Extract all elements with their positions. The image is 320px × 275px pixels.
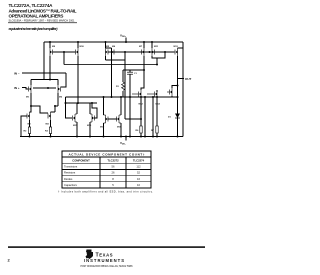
- junction (29.5,136.5): [29, 136, 31, 138]
- resistor R3 (under M4): [49, 127, 51, 134]
- junction (77,136.5): [76, 136, 78, 138]
- wire M3 source: [29, 120, 31, 127]
- wire left drop: [43, 42, 45, 80]
- svg-text:26: 26: [112, 171, 115, 175]
- transistor M11: [117, 115, 122, 123]
- diode D1: [175, 114, 180, 119]
- wire M2 drain: [57, 93, 59, 106]
- right edge wire: [182, 42, 184, 137]
- svg-text:56: 56: [112, 165, 115, 169]
- wire M12 res to rail: [156, 133, 158, 137]
- bias line H3: [64, 64, 157, 66]
- junction (92,103): [91, 102, 93, 104]
- gate bus y52 pair1: [53, 51, 76, 53]
- wire M12 source: [156, 98, 158, 126]
- svg-text:OPERATIONAL AMPLIFIERS: OPERATIONAL AMPLIFIERS: [9, 14, 64, 19]
- wire body link: [33, 87, 56, 89]
- junction (64,52): [63, 51, 65, 53]
- junction (121,97): [120, 96, 122, 98]
- wire M12 drain: [156, 90, 158, 92]
- wire pair3 tap: [157, 52, 165, 58]
- table outer border: [62, 151, 151, 188]
- junction (177.5,85.5): [177, 85, 179, 87]
- wire M3 res to rail: [29, 134, 31, 137]
- svg-text:Resistors: Resistors: [64, 171, 76, 175]
- bus line H7: [66, 96, 178, 98]
- junction (130,97): [129, 96, 131, 98]
- wire M5 gate link / bus corner: [66, 97, 73, 118]
- wire M8 res to rail: [140, 133, 142, 137]
- junction (78,42): [77, 41, 79, 43]
- wire M10 source: [103, 123, 105, 137]
- junction (126,42): [125, 41, 127, 43]
- gate bus y52 right: [108, 51, 175, 53]
- junction (157,136.5): [156, 136, 158, 138]
- wire M5 drain: [76, 103, 78, 114]
- wire M11 gate link: [108, 118, 118, 120]
- wire Q2 drain to mid bus: [77, 56, 79, 103]
- wire Q5 source: [151, 42, 153, 48]
- junction (141,119): [140, 118, 142, 120]
- TI logo map symbol: [86, 250, 94, 260]
- component designator labels: [24, 46, 179, 133]
- junction (177.5,136.5): [177, 136, 179, 138]
- svg-text:52: 52: [137, 171, 140, 175]
- svg-text:COMPONENT: COMPONENT: [72, 158, 90, 162]
- resistor R1: [122, 82, 125, 90]
- VDD- terminal tick: [125, 137, 127, 141]
- wire IN+: [22, 88, 29, 90]
- junction (50.5,136.5): [50, 136, 52, 138]
- transistor M3 (mirror left): [27, 112, 30, 120]
- wire M6 gate loop: [92, 103, 97, 118]
- wire mirror Z link: [31, 106, 48, 113]
- wire M4 drain stub: [51, 111, 56, 113]
- junction (111.5,97): [111, 96, 113, 98]
- resistor R2 (under M3): [28, 127, 30, 134]
- resistor R4 (under M8): [140, 126, 142, 133]
- junction dots: [29, 41, 179, 138]
- transistor M1 (input left): [29, 85, 32, 93]
- junction (65.5,103): [65, 102, 67, 104]
- wire M3 drain stub: [30, 106, 32, 112]
- svg-text:INSTRUMENTS: INSTRUMENTS: [84, 258, 124, 263]
- transistor Q4 (top pair2 right): [142, 48, 145, 56]
- transistor Q6 (top pair3 right): [175, 48, 178, 56]
- wire IN- wrap: [61, 73, 66, 87]
- junction (125,52): [124, 51, 126, 53]
- junction (177.5,97): [177, 96, 179, 98]
- wire Q4 drain: [141, 56, 144, 90]
- svg-text:TLC2272: TLC2272: [107, 158, 119, 162]
- transistor M10: [104, 115, 109, 123]
- resistor R5 (under M12): [156, 126, 158, 133]
- wire Q1 drain to tail: [49, 56, 51, 80]
- junction (153,97): [152, 96, 154, 98]
- wire M2 drain jog: [55, 106, 58, 112]
- transistor M12: [147, 90, 157, 98]
- transistor M5 (mid left): [73, 114, 78, 122]
- junction (55,106): [54, 105, 56, 107]
- wire C1 top lead: [129, 70, 131, 72]
- svg-text:ACTUAL DEVICE COMPONENT COUNT†: ACTUAL DEVICE COMPONENT COUNT†: [69, 153, 145, 157]
- wire Q1 source: [49, 42, 51, 48]
- wire M3 gate to rail: [21, 116, 27, 137]
- junction (145,97): [144, 96, 146, 98]
- svg-text:† Includes both amplifiers and: † Includes both amplifiers and all ESD, …: [58, 191, 153, 194]
- junction (152,42): [151, 41, 153, 43]
- transistor Q5 (top pair3 left): [152, 48, 155, 56]
- wire M11 source: [120, 123, 122, 137]
- wire tail bar: [31, 79, 58, 81]
- wire x153 drop: [152, 97, 154, 137]
- wire Q3 source: [105, 42, 107, 48]
- junction (141,136.5): [140, 136, 142, 138]
- svg-text:112: 112: [136, 165, 141, 169]
- junction (31,106): [30, 105, 32, 107]
- svg-text:SLOS190A – FEBRUARY 1997 – REV: SLOS190A – FEBRUARY 1997 – REVISED MARCH…: [9, 19, 76, 23]
- svg-text:Capacitors: Capacitors: [64, 183, 78, 187]
- wire M6 drain: [89, 103, 91, 114]
- svg-text:16: 16: [137, 177, 140, 181]
- junction (48,88): [47, 87, 49, 89]
- wire M4 res to rail: [50, 134, 52, 137]
- wire M14 drain: [172, 86, 178, 89]
- wire x145 drop: [144, 97, 146, 137]
- junction (153,136.5): [152, 136, 154, 138]
- svg-text:10: 10: [137, 183, 140, 187]
- junction (145,136.5): [144, 136, 146, 138]
- header rule: [8, 21, 77, 24]
- transistor M4 (mirror right): [48, 112, 51, 120]
- wire M14 source: [171, 96, 173, 97]
- wire Q4 source: [143, 42, 145, 48]
- svg-text:POST OFFICE BOX 655303 • DALLA: POST OFFICE BOX 655303 • DALLAS, TEXAS 7…: [81, 265, 134, 268]
- wire pair2 tap: [124, 52, 126, 119]
- junction (103.5,97): [103, 96, 105, 98]
- junction (141,97): [140, 96, 142, 98]
- transistor M2 (input right): [58, 85, 61, 93]
- transistor M8 (second stage): [132, 90, 141, 98]
- wire Q3b down to bus: [111, 48, 113, 97]
- junction (157,64.5): [156, 64, 158, 66]
- capacitor C1: [127, 72, 133, 74]
- svg-text:Transistors: Transistors: [64, 165, 78, 169]
- junction (50,79.5): [49, 79, 51, 81]
- wire M1 drain: [30, 93, 32, 106]
- transistor Q3a (top): [106, 48, 109, 56]
- svg-text:TLC2272A, TLC2274A: TLC2272A, TLC2274A: [9, 3, 54, 8]
- svg-text:Advanced LinCMOS™ RAIL-TO-RAIL: Advanced LinCMOS™ RAIL-TO-RAIL: [9, 8, 77, 13]
- transistor M6 (mid right): [90, 114, 95, 122]
- wire M11 drain: [120, 97, 122, 115]
- junction (165,52): [164, 51, 166, 53]
- wire comp top: [123, 69, 144, 71]
- wire M2 source: [57, 80, 59, 86]
- svg-text:IN +: IN +: [14, 86, 20, 90]
- VSS rail: [20, 136, 183, 138]
- transistor glyphs: [27, 48, 178, 123]
- svg-text:IN –: IN –: [14, 71, 20, 75]
- wire M6 source: [89, 122, 91, 137]
- junction (144,70): [143, 69, 145, 71]
- wire R1 bottom lead: [122, 91, 124, 97]
- transistor Q1 (top pair1 left): [50, 48, 53, 56]
- junction (144,42): [143, 41, 145, 43]
- junction (149.5,52): [149, 51, 151, 53]
- junction (157,97): [156, 96, 158, 98]
- transistor Q2 (top pair1 right): [76, 48, 79, 56]
- wire Q3a-Q3b source link: [106, 47, 112, 49]
- wire Q6 drain / output node: [177, 56, 179, 137]
- wire M5 source: [76, 122, 78, 137]
- VDD+ terminal tick: [125, 38, 127, 43]
- junction (126,136.5): [125, 136, 127, 138]
- wire pair1 tap: [63, 52, 65, 65]
- wire M1 source: [30, 80, 32, 86]
- junction (50,42): [49, 41, 51, 43]
- junction (130,136.5): [129, 136, 131, 138]
- table body: [64, 165, 78, 188]
- junction (103.5,136.5): [103, 136, 105, 138]
- wire Q6 source: [178, 47, 184, 49]
- junction (105.5,42): [105, 41, 107, 43]
- wire mid bus: [66, 102, 98, 104]
- svg-text:Diodes: Diodes: [64, 177, 73, 181]
- svg-text:TLC2274: TLC2274: [133, 158, 145, 162]
- junction (78,103): [77, 102, 79, 104]
- wire M4 source: [50, 120, 52, 127]
- wire gate line y119: [125, 118, 141, 120]
- wire C1 bottom lead: [129, 75, 131, 137]
- wire M10 drain: [103, 97, 105, 115]
- wire IN-: [22, 72, 66, 74]
- junction (90,136.5): [89, 136, 91, 138]
- svg-text:equivalent schematic (each amp: equivalent schematic (each amplifier): [9, 27, 59, 31]
- wire R1 top lead: [122, 70, 124, 82]
- wire M8 source: [140, 98, 142, 126]
- wire Q5 drain jog: [152, 56, 157, 65]
- VDD+ rail: [44, 41, 183, 43]
- wire OUT stub: [178, 78, 185, 80]
- table header: [72, 158, 144, 162]
- junction (121,136.5): [120, 136, 122, 138]
- footer rule: [8, 246, 205, 248]
- wire Q3 drain link y60: [105, 56, 107, 60]
- svg-text:OUT: OUT: [185, 77, 192, 81]
- wire Q2 source: [77, 42, 79, 48]
- transistor Q3b (top): [112, 48, 115, 56]
- transistor M14 (output): [167, 88, 172, 96]
